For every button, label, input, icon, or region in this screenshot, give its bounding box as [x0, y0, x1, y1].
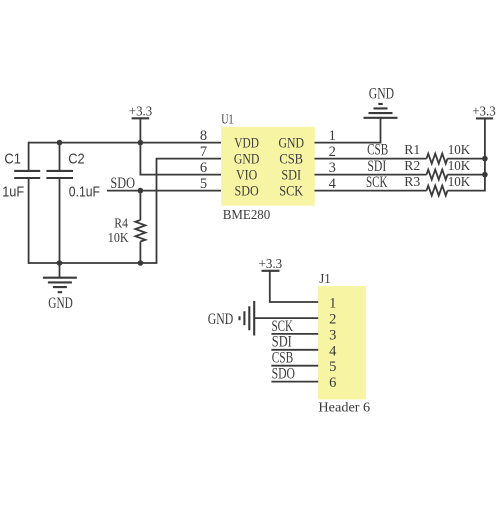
- R2 refdes label: [404, 159, 420, 174]
- U1 pin 5 number: [200, 176, 207, 192]
- U1 pin name VDD: [234, 136, 259, 152]
- connector J1 body: [318, 286, 366, 400]
- svg-text:R1: R1: [404, 143, 420, 158]
- wire: C1 top lead: [28, 142, 30, 171]
- wire: R4 top lead: [139, 191, 141, 220]
- wire: CSB net to J1 pin 5: [271, 365, 318, 367]
- C2 value label 0.1uF: [69, 183, 100, 200]
- J1 refdes label: [319, 272, 331, 287]
- J1 value label Header 6: [318, 400, 370, 415]
- node label SDI: [367, 158, 386, 175]
- J1 pin 5 number: [329, 359, 336, 375]
- R3 refdes label: [404, 175, 420, 190]
- U1 pin name GND (pin 7): [234, 152, 260, 168]
- svg-text:SDI: SDI: [367, 158, 386, 175]
- node label CSB (J1): [272, 350, 294, 367]
- junction: R2 on +3.3 rail: [482, 172, 488, 178]
- svg-text:GND: GND: [369, 85, 394, 102]
- svg-text:6: 6: [200, 160, 207, 176]
- wire: R1 to +3.3 rail: [448, 158, 485, 160]
- U1 pin name CSB: [279, 152, 303, 168]
- svg-text:Header 6: Header 6: [318, 400, 370, 415]
- svg-text:6: 6: [329, 375, 336, 391]
- U1 pin 8 number: [200, 128, 207, 144]
- U1 pin name GND (pin 1): [278, 136, 304, 152]
- J1 pin 4 number: [329, 343, 337, 359]
- svg-text:4: 4: [329, 343, 337, 359]
- svg-text:GND: GND: [234, 152, 260, 168]
- svg-text:10K: 10K: [448, 159, 471, 174]
- IC U1 body: [221, 127, 315, 206]
- svg-text:VDD: VDD: [234, 136, 259, 152]
- svg-text:5: 5: [200, 176, 207, 192]
- svg-text:CSB: CSB: [367, 141, 388, 158]
- ground (J1, pointing left): [208, 301, 254, 336]
- junction: C2/ground on bottom rail: [57, 260, 63, 266]
- U1 pin name SDO: [235, 184, 259, 200]
- node label SCK (J1): [272, 318, 294, 335]
- R4 refdes label: [114, 217, 128, 232]
- wire: U1 pin 7 GND down to bottom rail: [157, 159, 222, 264]
- C1 value label 1uF: [2, 183, 24, 200]
- capacitor C1: [14, 171, 40, 178]
- J1 pin 2 number: [329, 312, 336, 328]
- U1 pin 1 number: [329, 128, 336, 144]
- junction: +3.3 on VDD net: [138, 140, 144, 146]
- U1 value label BME280: [223, 208, 271, 223]
- junction: C2 on VDD net: [57, 140, 63, 146]
- svg-text:U1: U1: [221, 112, 233, 127]
- wire: SDO net to U1 pin 5: [107, 190, 221, 192]
- svg-text:VIO: VIO: [236, 168, 257, 184]
- svg-text:8: 8: [200, 128, 207, 144]
- svg-text:C2: C2: [68, 150, 85, 167]
- resistor R1: [427, 154, 448, 164]
- svg-text:SCK: SCK: [279, 184, 303, 200]
- svg-text:7: 7: [200, 144, 207, 160]
- node label SCK: [366, 174, 388, 191]
- resistor R3: [427, 186, 448, 196]
- R1 value label 10K: [448, 143, 471, 158]
- node label SDO: [110, 175, 135, 192]
- wire: ground rail bottom left: [29, 262, 157, 264]
- R3 value label 10K: [448, 175, 471, 190]
- J1 pin 1 number: [329, 296, 336, 312]
- U1 pin 7 number: [200, 144, 207, 160]
- svg-text:C1: C1: [4, 150, 21, 167]
- svg-text:CSB: CSB: [272, 350, 294, 367]
- node label SDO (J1): [272, 366, 295, 383]
- power +3.3 (right): [472, 105, 496, 120]
- ground (bottom left): [43, 278, 77, 312]
- svg-text:SCK: SCK: [366, 174, 388, 191]
- svg-text:R4: R4: [114, 217, 128, 232]
- svg-text:J1: J1: [319, 272, 331, 287]
- U1 pin 2 number: [329, 144, 336, 160]
- svg-text:SDI: SDI: [281, 168, 301, 184]
- capacitor C2: [46, 171, 73, 178]
- svg-text:BME280: BME280: [223, 208, 271, 223]
- svg-text:+3.3: +3.3: [259, 257, 283, 272]
- wire: SDI net to J1 pin 4: [271, 349, 318, 351]
- wire: U1 pin 1 to ground: [315, 118, 381, 143]
- svg-text:R3: R3: [404, 175, 420, 190]
- U1 pin 6 number: [200, 160, 207, 176]
- node label CSB: [367, 141, 388, 158]
- wire: CSB net U1 pin 2 to R1: [315, 158, 427, 160]
- wire: SCK net to J1 pin 3: [271, 333, 318, 335]
- R4 value label 10K: [108, 231, 129, 246]
- U1 pin name SCK: [279, 184, 303, 200]
- svg-text:GND: GND: [48, 295, 73, 312]
- wire: VDD net top rail from C1 to U1 pin 8: [29, 142, 221, 144]
- resistor R4: [135, 220, 145, 242]
- J1 pin 6 number: [329, 375, 336, 391]
- U1 pin 3 number: [329, 160, 336, 176]
- wire: C1 bottom lead: [28, 178, 30, 264]
- node label SDI (J1): [272, 334, 292, 351]
- C1 refdes label: [4, 150, 21, 167]
- U1 pin 4 number: [329, 176, 337, 192]
- svg-text:SDO: SDO: [272, 366, 295, 383]
- J1 pin 3 number: [329, 327, 336, 343]
- wire: C2 top lead: [59, 143, 61, 171]
- svg-text:SCK: SCK: [272, 318, 294, 335]
- svg-text:SDO: SDO: [110, 175, 135, 192]
- wire: R3 to +3.3 rail and rail up: [448, 118, 485, 191]
- svg-text:GND: GND: [278, 136, 304, 152]
- U1 pin name SDI: [281, 168, 301, 184]
- svg-text:R2: R2: [404, 159, 420, 174]
- U1 pin name VIO: [236, 168, 257, 184]
- svg-text:CSB: CSB: [279, 152, 303, 168]
- wire: R2 to +3.3 rail: [448, 174, 485, 176]
- wire: ground stem bottom left: [59, 263, 61, 278]
- wire: R4 bottom lead: [139, 242, 141, 264]
- wire: +3.3 drop through VDD net to U1 pin 6 VIO: [140, 118, 222, 174]
- wire: +3.3 to J1 pin 1: [270, 271, 318, 302]
- svg-text:+3.3: +3.3: [129, 104, 152, 119]
- ground (top, U1 pin 1): [364, 85, 398, 117]
- svg-text:GND: GND: [208, 311, 234, 328]
- svg-text:10K: 10K: [108, 231, 129, 246]
- svg-text:3: 3: [329, 327, 336, 343]
- junction: R1 on +3.3 rail: [482, 156, 488, 162]
- junction: R4 on bottom rail: [138, 260, 144, 266]
- svg-text:1: 1: [329, 296, 336, 312]
- R2 value label 10K: [448, 159, 471, 174]
- wire: SDI net U1 pin 3 to R2: [315, 174, 427, 176]
- power +3.3 (J1): [259, 257, 283, 272]
- svg-text:SDI: SDI: [272, 334, 292, 351]
- svg-text:+3.3: +3.3: [472, 105, 496, 120]
- C2 refdes label: [68, 150, 85, 167]
- wire: J1 pin 2 to ground: [254, 317, 318, 319]
- wire: SCK net U1 pin 4 to R3: [315, 190, 427, 192]
- R1 refdes label: [404, 143, 420, 158]
- svg-text:0.1uF: 0.1uF: [69, 183, 100, 200]
- wire: SDO net to J1 pin 6: [271, 381, 318, 383]
- power +3.3 (left): [129, 104, 152, 119]
- svg-text:10K: 10K: [448, 143, 471, 158]
- junction: R4 on SDO net: [138, 188, 144, 194]
- svg-text:SDO: SDO: [235, 184, 259, 200]
- svg-text:1uF: 1uF: [2, 183, 24, 200]
- svg-text:2: 2: [329, 312, 336, 328]
- U1 refdes label: [221, 112, 233, 127]
- svg-text:5: 5: [329, 359, 336, 375]
- svg-text:10K: 10K: [448, 175, 471, 190]
- resistor R2: [427, 170, 448, 180]
- wire: C2 bottom lead: [59, 178, 61, 263]
